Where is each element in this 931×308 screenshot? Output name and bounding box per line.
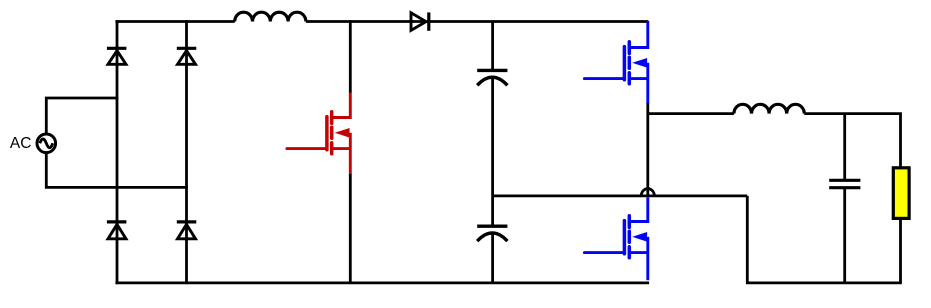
- diode D3 (bridge lower-left): [107, 222, 127, 239]
- wire: top rail, bridge to boost inductor: [115, 20, 234, 23]
- wire: output inductor to load top: [804, 114, 900, 168]
- wire: C1 to C2 through midpoint node: [491, 78, 494, 226]
- wire: switch node to output inductor: [648, 112, 734, 115]
- wire: AC top terminal up and right to bridge left leg: [46, 98, 118, 134]
- diode D4 (bridge lower-right): [177, 222, 197, 239]
- wire: load bottom to output rail: [899, 218, 902, 283]
- capacitor C2 (lower bus capacitor): [477, 226, 507, 241]
- AC source V1: [37, 134, 56, 153]
- svg-text:AC: AC: [10, 135, 32, 152]
- wire: switch node vertical (Q2 source to crossover): [646, 104, 649, 198]
- wire: bottom output rail: [746, 281, 902, 284]
- capacitor C3 (output filter): [829, 180, 860, 187]
- wire: output cap branch bottom: [843, 188, 846, 283]
- crossover hop (midpoint wire over switch-node leg): [641, 189, 654, 196]
- resistor R1 (load): [893, 168, 909, 219]
- capacitor C1 (upper bus capacitor): [477, 70, 507, 85]
- inductor L2 (output filter): [734, 104, 804, 113]
- diode D5 (boost): [411, 12, 429, 30]
- transistor Q2 (high-side MOSFET, blue): [584, 21, 647, 104]
- wire: top rail, inductor through boost diode to half-bridge: [306, 20, 649, 23]
- wire: Q1 drain to top rail: [349, 20, 352, 93]
- wire: bridge left leg: [116, 20, 119, 284]
- transistor Q1 (boost MOSFET, red): [287, 93, 350, 175]
- transistor Q3 (low-side MOSFET, blue): [584, 197, 647, 280]
- wire: Q1 source to bottom rail: [349, 174, 352, 283]
- wire: output cap branch top: [843, 114, 846, 181]
- diode D1 (bridge upper-left): [107, 48, 127, 64]
- wire: capacitor midpoint to output return: [493, 194, 748, 197]
- wire: C2 to bottom rail: [491, 234, 494, 283]
- wire: AC bottom terminal down and right to bridge right leg: [46, 153, 188, 188]
- diode D2 (bridge upper-right): [177, 48, 197, 64]
- wire: bridge right leg: [185, 20, 188, 284]
- inductor L1 (boost): [235, 12, 306, 21]
- wire: output return drop: [746, 196, 749, 283]
- wire: top rail to C1 top plate: [491, 22, 494, 71]
- wire: bottom rail (negative bus): [115, 281, 649, 284]
